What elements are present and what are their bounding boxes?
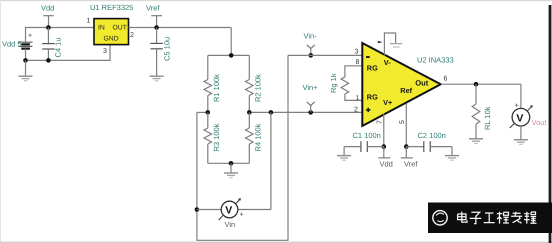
svg-text:V: V [516, 113, 523, 125]
node dot left rail voltmeter [195, 207, 200, 212]
svg-text:Out: Out [415, 79, 429, 88]
svg-text:U2 INA333: U2 INA333 [417, 55, 454, 64]
ground C1 [337, 147, 351, 161]
node dot Vdd/C4 [46, 25, 51, 30]
svg-text:C1 100n: C1 100n [353, 131, 381, 140]
node dot voltmeter riser [269, 110, 274, 115]
watermark banner [428, 203, 552, 234]
svg-text:R3 100k: R3 100k [212, 123, 221, 151]
svg-text:5: 5 [399, 120, 406, 124]
svg-text:7: 7 [377, 120, 384, 124]
node dot bridge bottom [229, 161, 234, 166]
svg-text:Vin-: Vin- [304, 32, 318, 41]
V- supply symbol above op-amp [378, 33, 403, 56]
svg-text:1: 1 [356, 95, 360, 102]
svg-text:R2 100k: R2 100k [254, 74, 263, 102]
svg-text:GND: GND [104, 36, 119, 43]
svg-text:Vdd 5: Vdd 5 [2, 40, 22, 49]
svg-text:2: 2 [354, 106, 358, 113]
svg-text:Vref: Vref [146, 4, 160, 13]
svg-text:Vout: Vout [532, 118, 548, 127]
svg-text:V: V [225, 205, 232, 217]
svg-text:RL 10k: RL 10k [483, 106, 492, 130]
ground C2 [445, 147, 459, 161]
svg-text:R4 100k: R4 100k [254, 123, 263, 151]
wire output [441, 83, 521, 85]
svg-text:2: 2 [130, 32, 134, 39]
input port Vin+ [307, 102, 315, 113]
capacitor C4 1u [42, 28, 54, 61]
resistor R3 100k [204, 112, 212, 163]
svg-text:C4 1u: C4 1u [54, 37, 63, 57]
svg-text:1: 1 [87, 18, 91, 25]
svg-text:3: 3 [103, 48, 107, 55]
node dot bridge top [229, 53, 234, 58]
resistor R4 100k [246, 112, 254, 163]
resistor R1 100k [204, 55, 212, 112]
node dot R2/R4 [247, 110, 252, 115]
resistor RL 10k [472, 84, 480, 138]
node dot Vin- port [309, 53, 314, 58]
logo circle [433, 211, 447, 225]
svg-text:+: + [515, 103, 519, 110]
svg-text:RG: RG [367, 64, 378, 73]
banner text dian 电 [458, 212, 467, 223]
ground bridge [224, 163, 238, 177]
wire bridge top [208, 54, 250, 56]
svg-text:IN: IN [98, 25, 105, 32]
wire Vref rail [129, 27, 232, 29]
svg-text:C2 100n: C2 100n [418, 131, 446, 140]
banner text ji 辑 [524, 212, 536, 224]
ground RL [469, 139, 483, 144]
V+ pin stub to Vdd [378, 114, 390, 158]
wire Vref feed down to bridge [230, 28, 232, 56]
node dot Vref/C5 [154, 25, 159, 30]
resistor Rg 1k [341, 66, 362, 101]
wire Vdd top rail [26, 28, 95, 43]
svg-text:RG: RG [367, 92, 378, 101]
svg-text:Vdd: Vdd [380, 160, 393, 169]
svg-text:+: + [28, 33, 32, 40]
wire bridge bottom [208, 162, 250, 164]
power port Vdd [43, 16, 53, 28]
svg-text:+: + [240, 212, 244, 219]
svg-text:R1 100k: R1 100k [212, 74, 221, 102]
svg-text:Ref: Ref [400, 86, 412, 95]
svg-text:Vin+: Vin+ [303, 83, 319, 92]
wire node Vin+ segment [249, 111, 362, 113]
svg-text:Vdd: Vdd [41, 4, 54, 13]
svg-text:OUT: OUT [113, 25, 127, 32]
svg-text:V-: V- [384, 58, 391, 67]
capacitor C2 100n [406, 141, 452, 152]
ground below battery [19, 60, 33, 80]
op-amp U2 INA333 [362, 43, 440, 126]
svg-text:U1 REF3325: U1 REF3325 [90, 3, 133, 12]
wire node Vin- segment [197, 111, 210, 113]
node dot Vin+ port [308, 110, 313, 115]
svg-text:V+: V+ [383, 98, 392, 107]
IC U1 REF3325 [94, 19, 129, 45]
banner text gong 工 [484, 213, 495, 223]
banner text zhuan 专 [511, 212, 522, 224]
node dot R1/R3 [206, 110, 211, 115]
resistor R2 100k [246, 55, 254, 112]
svg-text:Vin: Vin [225, 220, 236, 229]
capacitor C1 100n [344, 141, 384, 152]
node dot battery gnd [23, 58, 28, 63]
ground below C5 [150, 76, 164, 81]
input port Vin- [307, 45, 315, 56]
power port Vref [151, 16, 162, 28]
svg-text:C5 10u: C5 10u [163, 37, 172, 61]
wire left rail [197, 55, 288, 240]
ground Vout [514, 140, 528, 145]
capacitor C5 10u [150, 28, 162, 76]
node dot output [474, 82, 479, 87]
svg-text:8: 8 [356, 59, 360, 66]
battery V1 Vdd 5 [19, 33, 33, 61]
wire voltmeter riser [270, 112, 272, 209]
voltmeter Vin [197, 198, 271, 220]
voltmeter Vout [510, 84, 533, 139]
svg-text:Rg 1k: Rg 1k [329, 73, 338, 93]
node dot C4 gnd [46, 58, 51, 63]
wire Vin- line [288, 54, 362, 56]
svg-text:Vref: Vref [404, 160, 418, 169]
banner text zi 子 [470, 212, 482, 223]
svg-text:3: 3 [355, 48, 359, 55]
Ref pin stub to Vref [401, 104, 413, 158]
svg-text:6: 6 [444, 76, 448, 83]
banner text cheng 程 [497, 212, 509, 224]
wire gnd rail left [26, 45, 111, 61]
